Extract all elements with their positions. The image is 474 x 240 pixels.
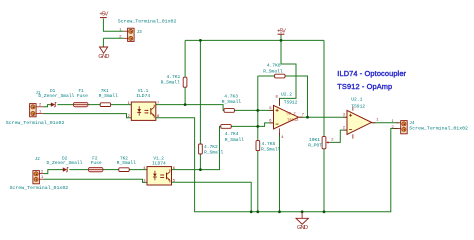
svg-text:Fuse: Fuse	[91, 160, 102, 166]
svg-text:R_Small: R_Small	[204, 150, 224, 156]
svg-text:4.7K1: 4.7K1	[167, 74, 181, 80]
svg-text:4.7K5: 4.7K5	[262, 141, 276, 147]
svg-text:Screw_Terminal_01x02: Screw_Terminal_01x02	[409, 126, 468, 132]
svg-text:GND: GND	[98, 54, 109, 60]
svg-text:Screw_Terminal_01x02: Screw_Terminal_01x02	[118, 18, 177, 24]
svg-text:+5V: +5V	[99, 12, 108, 18]
svg-text:D_Zener_Small: D_Zener_Small	[47, 160, 83, 166]
svg-text:U2.2: U2.2	[287, 112, 297, 116]
svg-text:10K1: 10K1	[309, 137, 320, 143]
svg-text:ILD74 - Optocoupler: ILD74 - Optocoupler	[337, 69, 406, 78]
svg-text:D_Zener_Small: D_Zener_Small	[38, 93, 74, 99]
svg-text:J4: J4	[409, 121, 415, 126]
svg-text:TS912: TS912	[284, 99, 298, 105]
svg-text:TS912: TS912	[287, 119, 299, 123]
svg-text:Screw_Terminal_01x02: Screw_Terminal_01x02	[10, 185, 69, 191]
svg-text:TS912: TS912	[351, 104, 365, 110]
svg-text:J3: J3	[137, 30, 143, 35]
svg-text:GND: GND	[297, 225, 308, 231]
svg-text:R_Small: R_Small	[117, 160, 137, 166]
svg-text:R_Small: R_Small	[261, 147, 281, 153]
svg-text:4.7K2: 4.7K2	[204, 144, 218, 150]
svg-text:R_Small: R_Small	[225, 137, 245, 143]
svg-text:ILD74: ILD74	[136, 93, 150, 99]
svg-text:R_Small: R_Small	[161, 80, 181, 86]
svg-text:R_Small: R_Small	[222, 99, 242, 105]
svg-text:U2.2: U2.2	[281, 92, 292, 98]
svg-text:J2: J2	[35, 158, 41, 162]
svg-text:TS912 - OpAmp: TS912 - OpAmp	[337, 82, 392, 91]
svg-text:R_Small: R_Small	[263, 68, 283, 74]
svg-text:4.7K8: 4.7K8	[267, 63, 281, 69]
svg-text:U2.1: U2.1	[351, 96, 362, 102]
svg-text:ILD74: ILD74	[152, 160, 166, 166]
svg-text:R_Small: R_Small	[99, 93, 119, 99]
svg-text:4.7K3: 4.7K3	[224, 93, 238, 99]
svg-text:4.7K4: 4.7K4	[225, 131, 239, 137]
svg-text:Fuse: Fuse	[77, 93, 88, 99]
svg-text:R_POT: R_POT	[308, 143, 322, 149]
svg-text:+5V: +5V	[277, 28, 286, 34]
svg-text:Screw_Terminal_01x02: Screw_Terminal_01x02	[6, 120, 65, 126]
